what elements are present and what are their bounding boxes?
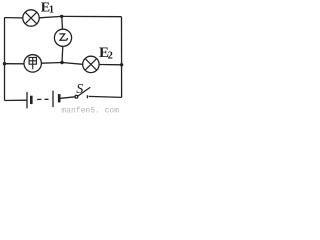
wire middle segment (甲 to junction) [41, 62, 62, 65]
label E2 [99, 45, 113, 62]
wire middle-right segment [99, 64, 122, 66]
wire battery to switch [61, 97, 76, 99]
wire left edge [4, 18, 6, 101]
wire 乙 branch lower [61, 46, 64, 62]
node junction right (middle branch) [120, 63, 123, 66]
wire bottom-right segment [89, 96, 122, 97]
battery cell 2 long plate [52, 91, 54, 108]
node junction middle (乙 bottom) [60, 61, 63, 64]
meter 甲 U2 [24, 55, 41, 72]
node junction top (乙 tap) [60, 15, 63, 18]
battery cell 2 short thick plate [58, 94, 61, 102]
battery dash 1 [37, 98, 41, 100]
svg-text:2: 2 [108, 51, 113, 62]
wire right edge [121, 17, 123, 98]
svg-text:S: S [76, 82, 83, 97]
label E1 [41, 0, 54, 15]
lamp E1 [23, 10, 39, 26]
wire top-left segment [5, 17, 23, 19]
node junction left (middle branch) [3, 62, 6, 65]
meter 乙 U1 [54, 29, 71, 46]
wire top-right segment [62, 15, 122, 17]
wire bottom-left segment [5, 99, 28, 101]
svg-text:manfen5. com: manfen5. com [61, 107, 119, 114]
switch S fixed contact [86, 95, 88, 98]
wire middle segment (junction to E2) [62, 63, 83, 65]
battery cell 1 short thick plate [30, 96, 33, 104]
wire 乙 branch upper [61, 16, 64, 29]
wire middle-left segment [5, 63, 25, 65]
battery cell 1 long plate [26, 92, 28, 109]
svg-text:1: 1 [49, 5, 54, 16]
switch S pivot [75, 95, 78, 98]
lamp E2 [83, 56, 99, 72]
switch S blade [78, 87, 91, 96]
wire top-middle segment [39, 16, 62, 17]
battery dash 2 [45, 98, 49, 100]
